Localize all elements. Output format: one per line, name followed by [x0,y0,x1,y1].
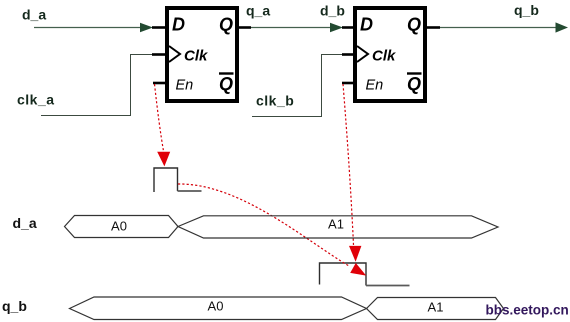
svg-text:Q: Q [219,74,233,94]
svg-text:d_b: d_b [320,3,345,19]
svg-text:D: D [360,15,373,35]
svg-text:Q: Q [407,15,421,35]
svg-text:Q: Q [219,15,233,35]
svg-text:A0: A0 [208,299,224,314]
svg-text:q_b: q_b [2,298,27,314]
svg-text:clk_b: clk_b [256,93,294,109]
svg-text:clk_a: clk_a [17,92,55,108]
svg-text:A0: A0 [111,219,127,234]
svg-text:D: D [172,15,185,35]
svg-text:Q: Q [407,74,421,94]
svg-text:d_a: d_a [22,7,46,23]
svg-text:A1: A1 [328,217,344,232]
svg-text:A1: A1 [428,300,444,315]
svg-text:Clk: Clk [184,48,208,65]
svg-text:En: En [366,78,384,94]
svg-text:bbs.eetop.cn: bbs.eetop.cn [486,303,569,318]
svg-text:d_a: d_a [13,215,37,231]
svg-text:q_a: q_a [246,3,270,19]
svg-text:Clk: Clk [372,48,396,65]
svg-text:q_b: q_b [514,2,539,18]
svg-text:En: En [176,78,194,94]
